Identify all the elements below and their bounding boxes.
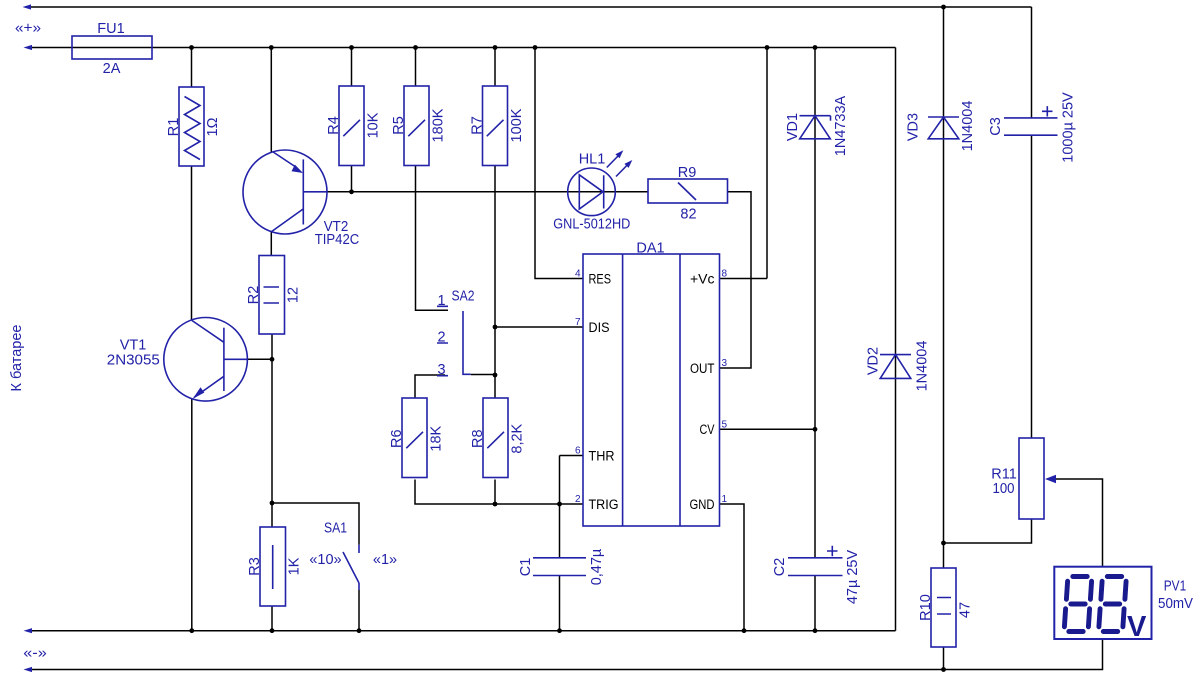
svg-text:1N4733A: 1N4733A	[833, 95, 849, 156]
pin 1 GND	[690, 494, 728, 512]
wire R4 bottom lead	[351, 166, 353, 192]
wire GND lead and drop	[720, 504, 745, 631]
svg-text:GNL-5012HD: GNL-5012HD	[553, 217, 630, 233]
arrow top positive rail	[23, 4, 32, 9]
svg-text:TIP42C: TIP42C	[315, 232, 360, 248]
svg-text:«-»: «-»	[23, 646, 47, 662]
svg-text:THR: THR	[589, 448, 615, 463]
svg-text:100: 100	[993, 481, 1015, 497]
wire C3 column upper	[1031, 7, 1033, 118]
svg-text:OUT: OUT	[690, 361, 715, 376]
fuse FU1	[72, 21, 152, 77]
resistor R3 1K	[247, 527, 303, 606]
wire R1 top lead	[191, 48, 193, 88]
resistor R1 1Ω	[166, 87, 221, 166]
svg-text:VD1: VD1	[785, 113, 801, 141]
wire R11 bottom to R10 node	[944, 519, 1032, 543]
diode VD2 1N4004	[866, 341, 931, 392]
svg-text:«1»: «1»	[373, 552, 397, 568]
op-amp U timer DA1	[583, 241, 720, 527]
LED HL1 GNL-5012HD	[553, 150, 632, 232]
svg-text:1K: 1K	[287, 557, 303, 575]
pin 6 THR	[575, 446, 615, 464]
svg-text:HL1: HL1	[579, 152, 606, 168]
svg-text:SA2: SA2	[452, 289, 475, 305]
arrow negative rail	[24, 667, 33, 672]
svg-text:47: 47	[958, 602, 974, 618]
wire R11 wiper to PV1	[1049, 479, 1103, 567]
resistor R4 10K	[326, 86, 382, 166]
svg-text:PV1: PV1	[1164, 579, 1187, 595]
wire negative rail	[30, 639, 1103, 670]
node К батарее label	[9, 325, 25, 392]
pin 2 TRIG	[575, 494, 619, 512]
svg-text:7: 7	[575, 317, 581, 328]
svg-text:10K: 10K	[366, 112, 382, 138]
svg-text:C2: C2	[772, 558, 788, 577]
wire VT2 emitter lead	[270, 48, 272, 153]
svg-text:DA1: DA1	[636, 241, 664, 257]
wire +Vc lead and riser	[720, 48, 768, 279]
svg-text:4: 4	[575, 269, 581, 280]
resistor R2 12	[246, 256, 302, 335]
svg-text:«+»: «+»	[15, 21, 41, 37]
svg-text:1: 1	[722, 494, 728, 505]
wire SA1 bottom lead	[358, 590, 360, 631]
svg-text:RES: RES	[589, 271, 612, 286]
wire THR lead	[560, 455, 584, 457]
node «+» label	[15, 21, 41, 37]
svg-text:CV: CV	[700, 422, 715, 437]
svg-text:100K: 100K	[509, 108, 525, 142]
wire ground rail	[30, 630, 896, 632]
arrow +12V rail	[24, 45, 33, 50]
svg-text:5: 5	[722, 419, 728, 430]
wire R7 top lead	[494, 48, 496, 87]
svg-text:DIS: DIS	[589, 320, 610, 335]
diode VD3 1N4004	[906, 101, 977, 152]
wire C3 to R11	[1031, 135, 1033, 438]
svg-text:2A: 2A	[103, 61, 121, 77]
svg-text:К батарее: К батарее	[9, 325, 25, 392]
pin 7 DIS	[575, 317, 610, 335]
svg-text:3: 3	[437, 362, 445, 378]
svg-text:12: 12	[286, 287, 302, 303]
svg-text:2: 2	[437, 330, 445, 346]
svg-text:VD3: VD3	[906, 113, 922, 141]
capacitor C1 0,47µ	[518, 548, 605, 585]
svg-text:8,2K: 8,2K	[510, 423, 526, 453]
svg-text:«10»: «10»	[309, 552, 341, 568]
node «-» label	[23, 646, 47, 662]
svg-text:8: 8	[722, 269, 728, 280]
svg-text:2N3055: 2N3055	[107, 353, 160, 369]
svg-text:SA1: SA1	[324, 521, 347, 537]
svg-text:R5: R5	[391, 116, 407, 135]
wire C2 bottom lead	[814, 576, 816, 631]
wire THR riser to TRIG row	[559, 456, 561, 505]
svg-text:1Ω: 1Ω	[205, 117, 221, 136]
svg-text:R7: R7	[470, 116, 486, 135]
resistor R9 82	[648, 165, 728, 223]
wire VT1 emitter to ground rail	[191, 399, 193, 631]
wire R6 bottom to TRIG row	[415, 480, 583, 505]
svg-text:TRIG: TRIG	[589, 497, 619, 512]
wire R10 bottom lead	[943, 647, 945, 670]
wire R10 top lead	[943, 543, 945, 568]
wire R4 top lead	[351, 48, 353, 87]
wire VD1 C2 column upper	[814, 48, 816, 558]
arrow ground rail	[24, 628, 33, 633]
wire R3 bottom lead	[271, 606, 273, 631]
svg-text:18K: 18K	[429, 425, 445, 451]
resistor R7 100K	[470, 86, 526, 166]
svg-text:6: 6	[575, 446, 581, 457]
svg-text:FU1: FU1	[97, 21, 124, 37]
pin 4 RES	[575, 269, 611, 287]
resistor R10 47	[918, 568, 974, 647]
svg-text:82: 82	[680, 207, 696, 223]
meter PV1 50mV	[1054, 567, 1193, 643]
svg-text:R1: R1	[166, 118, 182, 137]
svg-text:1N4004: 1N4004	[915, 341, 931, 392]
svg-text:1000µ 25V: 1000µ 25V	[1061, 92, 1077, 163]
switch SA1	[309, 521, 397, 591]
svg-text:R2: R2	[246, 286, 262, 305]
wire VD2 column	[895, 48, 897, 631]
svg-text:VT1: VT1	[120, 338, 147, 354]
wire R5 bottom to SA2 contact 1	[416, 166, 449, 311]
svg-text:C3: C3	[988, 117, 1004, 136]
wire VT2 base row to LED and R9	[304, 191, 648, 193]
wire node R3 to SA1	[272, 503, 359, 545]
wire top positive rail	[30, 6, 1032, 8]
svg-text:47µ 25V: 47µ 25V	[845, 550, 861, 605]
wire C1 bottom lead	[559, 576, 561, 631]
wire SA2 contact 3 to R6	[415, 375, 445, 398]
transistor VT2 TIP42C	[243, 150, 359, 248]
pin 5 CV	[700, 419, 728, 437]
svg-text:0,47µ: 0,47µ	[589, 548, 605, 585]
svg-text:3: 3	[722, 358, 728, 369]
wire R7 bottom through DIS and SA2 nodes to R8	[494, 166, 496, 399]
wire RES riser from +12V rail	[535, 48, 583, 279]
svg-text:2: 2	[575, 494, 581, 505]
wire R1 bottom lead to VT1 collector	[191, 166, 193, 320]
svg-text:180K: 180K	[431, 108, 447, 142]
svg-text:R8: R8	[470, 429, 486, 448]
resistor R8 8,2K	[470, 398, 526, 478]
svg-text:+Vc: +Vc	[690, 271, 715, 286]
svg-text:1: 1	[437, 293, 445, 309]
svg-text:50mV: 50mV	[1158, 596, 1193, 612]
wire VT2 collector to R2	[270, 232, 272, 256]
svg-text:C1: C1	[518, 558, 534, 577]
svg-text:R10: R10	[918, 594, 934, 621]
pin 3 OUT	[690, 358, 728, 376]
wire C1 top lead	[559, 504, 561, 558]
resistor R5 180K	[391, 86, 447, 166]
wire VD3 column upper	[943, 7, 945, 543]
wire OUT lead riser to R9	[720, 192, 752, 368]
wire DIS lead	[495, 326, 583, 328]
svg-text:GND: GND	[690, 497, 715, 512]
wire SA2 pole to R7/R8 column	[471, 374, 495, 376]
wire VT1 base to R2/R3 node	[224, 358, 272, 360]
switch SA2	[437, 289, 475, 379]
wire R2 bottom through base node to R3 top	[271, 334, 273, 527]
resistor R6 18K	[389, 398, 445, 478]
svg-text:R6: R6	[389, 429, 405, 448]
svg-text:VD2: VD2	[866, 347, 882, 375]
transistor VT1 2N3055	[107, 318, 248, 402]
svg-text:1N4004: 1N4004	[960, 101, 976, 152]
wire +12V rail	[30, 47, 896, 49]
capacitor C3 1000µ 25V	[988, 92, 1077, 163]
svg-text:V: V	[1127, 611, 1147, 643]
svg-text:R9: R9	[678, 165, 697, 181]
svg-text:R4: R4	[326, 116, 342, 135]
svg-text:R3: R3	[247, 557, 263, 576]
wire R5 top lead	[415, 48, 417, 87]
diode VD1 1N4733A	[785, 95, 849, 156]
pin 8 +Vc	[690, 269, 728, 287]
wire CV lead	[720, 428, 816, 430]
potentiometer R11 100	[991, 438, 1056, 519]
capacitor C2 47µ 25V	[772, 546, 861, 604]
wire R8 bottom lead	[494, 480, 496, 505]
